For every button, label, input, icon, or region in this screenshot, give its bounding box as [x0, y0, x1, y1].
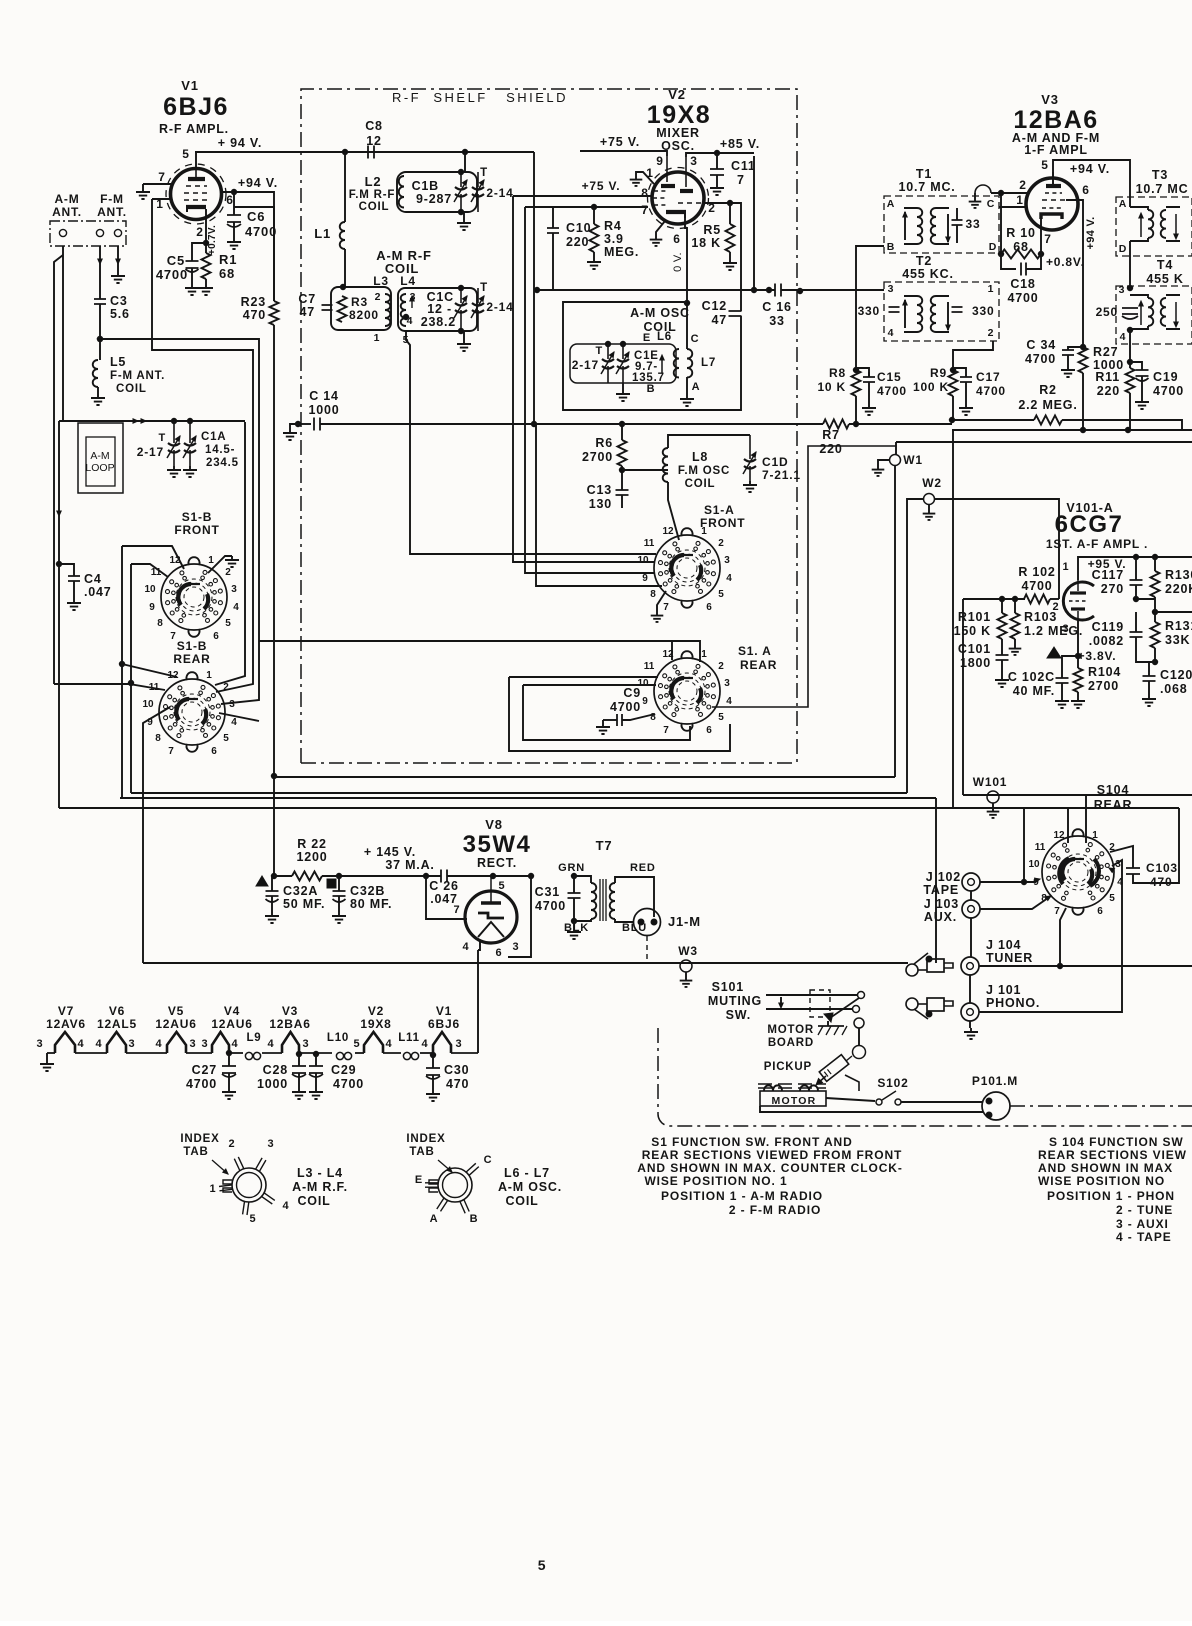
- svg-text:MOTOR: MOTOR: [772, 1095, 817, 1107]
- svg-text:2: 2: [225, 567, 231, 578]
- svg-text:4 - TAPE: 4 - TAPE: [1116, 1230, 1172, 1244]
- svg-text:B: B: [647, 383, 656, 395]
- svg-text:C12: C12: [702, 299, 727, 313]
- svg-text:L4: L4: [400, 274, 416, 288]
- svg-text:3: 3: [229, 699, 235, 710]
- svg-text:4: 4: [232, 1038, 239, 1050]
- svg-text:4700: 4700: [877, 384, 907, 398]
- svg-text:10: 10: [1028, 859, 1040, 870]
- svg-text:1000: 1000: [308, 403, 339, 417]
- svg-text:C103: C103: [1146, 861, 1178, 875]
- capacitor C120 .068: [1148, 662, 1150, 676]
- svg-text:C19: C19: [1153, 370, 1178, 384]
- svg-text:W101: W101: [973, 775, 1008, 789]
- svg-text:455 K: 455 K: [1146, 272, 1183, 286]
- svg-text:FRONT: FRONT: [174, 523, 219, 537]
- variable capacitor C1D 7-21.1: [749, 435, 751, 459]
- svg-text:W2: W2: [922, 476, 942, 490]
- node S1-B rear pin10 feed: [128, 680, 133, 685]
- svg-text:C1D: C1D: [762, 455, 788, 469]
- svg-text:7: 7: [454, 904, 461, 916]
- wire pickup to muting: [846, 1056, 852, 1061]
- svg-text:J1-M: J1-M: [668, 914, 701, 929]
- svg-text:L8: L8: [692, 450, 708, 464]
- svg-text:10: 10: [142, 699, 154, 710]
- svg-text:+94 V.: +94 V.: [1070, 162, 1110, 176]
- wire S1-A REAR pin12 top: [671, 640, 673, 660]
- trimmer cap T 2-17 (loop): [173, 421, 175, 443]
- wire T2 pin2 to R9: [953, 341, 993, 370]
- svg-text:2: 2: [196, 225, 203, 239]
- resistor R4 3.9 MEG: [593, 207, 595, 224]
- wire V8 pin4 heater feed: [478, 940, 480, 950]
- svg-text:E: E: [643, 332, 651, 344]
- svg-text:V3: V3: [1041, 92, 1059, 107]
- svg-text:C 16: C 16: [762, 300, 792, 314]
- svg-text:R23: R23: [241, 295, 266, 309]
- coil diagram L6-L7 pins: [466, 1163, 479, 1175]
- svg-text:+75 V.: +75 V.: [582, 179, 621, 193]
- svg-text:2: 2: [375, 291, 382, 303]
- svg-text:8: 8: [650, 589, 656, 600]
- svg-text:3: 3: [888, 283, 895, 295]
- svg-text:6: 6: [706, 602, 712, 613]
- svg-text:270: 270: [1101, 582, 1124, 596]
- svg-text:C 34: C 34: [1026, 338, 1056, 352]
- svg-text:4700: 4700: [610, 700, 641, 714]
- svg-text:PICKUP: PICKUP: [764, 1061, 812, 1073]
- svg-text:4: 4: [726, 696, 732, 707]
- svg-text:12AV6: 12AV6: [46, 1017, 86, 1031]
- jumper W1: [895, 442, 897, 455]
- svg-text:2-14: 2-14: [486, 300, 513, 314]
- svg-text:3: 3: [231, 584, 237, 595]
- svg-text:WISE POSITION NO: WISE POSITION NO: [1038, 1174, 1165, 1188]
- svg-text:+85 V.: +85 V.: [720, 137, 760, 151]
- svg-text:3: 3: [37, 1038, 44, 1050]
- transformer T7 secondary winding: [610, 883, 615, 919]
- audio section box: [962, 599, 964, 795]
- svg-text:8: 8: [155, 733, 161, 744]
- svg-text:35W4: 35W4: [463, 831, 532, 858]
- trimmer T 2-17 (osc): [607, 344, 609, 359]
- svg-text:+94 V.: +94 V.: [238, 176, 278, 190]
- A-M R-F coil left box: [331, 287, 391, 330]
- svg-text:220: 220: [819, 442, 842, 456]
- svg-text:C: C: [987, 198, 995, 210]
- ground at V1 pin7: [143, 183, 171, 185]
- wire L8 bottom to S1-A front: [668, 482, 679, 540]
- svg-text:7: 7: [1044, 232, 1051, 246]
- svg-text:3: 3: [202, 1038, 209, 1050]
- svg-text:3.9: 3.9: [604, 232, 624, 246]
- capacitor T2 330 right: [952, 307, 963, 312]
- svg-text:7: 7: [663, 725, 669, 736]
- switch S1-A REAR: [637, 649, 732, 736]
- capacitor C13 130: [616, 490, 629, 495]
- svg-text:4: 4: [422, 1038, 429, 1050]
- svg-text:C 14: C 14: [309, 389, 339, 403]
- node R6 top: [619, 421, 624, 426]
- svg-text:C 102C: C 102C: [1008, 670, 1055, 684]
- resistor R101 150K: [1001, 599, 1003, 613]
- svg-text:J 103: J 103: [924, 897, 959, 911]
- svg-text:S102: S102: [877, 1076, 908, 1090]
- svg-text:40 MF.: 40 MF.: [1013, 684, 1055, 698]
- svg-text:R-F AMPL.: R-F AMPL.: [159, 122, 229, 136]
- svg-text:R101: R101: [958, 610, 991, 624]
- A-M loop antenna: [78, 423, 123, 493]
- svg-text:C31: C31: [535, 885, 560, 899]
- svg-text:+0.7V.: +0.7V.: [207, 225, 218, 255]
- phono plug at phono jack: [906, 998, 918, 1010]
- svg-text:C: C: [691, 333, 700, 345]
- S104 wiper feeds: [1067, 808, 1069, 843]
- svg-text:4: 4: [231, 717, 237, 728]
- node R22 left: [271, 873, 276, 878]
- svg-text:L7: L7: [701, 357, 716, 369]
- svg-text:50 MF.: 50 MF.: [283, 897, 325, 911]
- svg-text:5: 5: [354, 1038, 361, 1050]
- resistor R104 2700: [1077, 656, 1079, 668]
- resistor R131 33K: [1154, 612, 1156, 622]
- wire T3 left column: [1129, 241, 1131, 286]
- capacitor C6 4700: [233, 192, 235, 215]
- svg-text:V5: V5: [168, 1004, 184, 1018]
- svg-text:6: 6: [226, 193, 233, 207]
- variable capacitor C1E 9.7-135.7: [622, 344, 624, 359]
- ground V2 cathode: [656, 221, 665, 236]
- svg-text:C30: C30: [444, 1063, 469, 1077]
- wire S104 pin7 to tuner: [1060, 908, 1066, 966]
- switch S1-B FRONT: [144, 555, 239, 642]
- svg-text:L6: L6: [657, 331, 672, 343]
- svg-text:INDEX: INDEX: [180, 1133, 219, 1145]
- svg-text:68: 68: [219, 266, 235, 281]
- svg-text:4700: 4700: [1025, 352, 1056, 366]
- svg-text:A: A: [430, 1213, 439, 1225]
- svg-text:T: T: [595, 345, 603, 357]
- node F-M coil tap: [97, 336, 102, 341]
- ground S1-A FRONT pin7: [657, 591, 666, 612]
- svg-text:TAB: TAB: [409, 1146, 434, 1158]
- node C16 left: [766, 287, 771, 292]
- svg-text:4700: 4700: [535, 899, 566, 913]
- svg-text:A-M OSC.: A-M OSC.: [498, 1180, 562, 1194]
- svg-text:47: 47: [711, 313, 727, 327]
- svg-text:MIXER: MIXER: [656, 126, 700, 140]
- ground F-M lead: [111, 272, 125, 283]
- svg-text:B: B: [887, 241, 895, 253]
- svg-text:J 102: J 102: [926, 870, 961, 884]
- transformer T2 box: [884, 282, 999, 341]
- ground J101: [964, 1028, 978, 1039]
- svg-text:ANT.: ANT.: [52, 205, 82, 219]
- heater chain filaments: [55, 1032, 75, 1053]
- svg-text:10: 10: [144, 584, 156, 595]
- svg-text:REAR: REAR: [740, 658, 777, 672]
- svg-text:4: 4: [463, 941, 470, 953]
- svg-text:1200: 1200: [296, 850, 327, 864]
- svg-text:4: 4: [283, 1200, 290, 1212]
- svg-text:47: 47: [299, 305, 315, 319]
- svg-text:12AU6: 12AU6: [211, 1017, 252, 1031]
- capacitor C29 4700: [313, 1051, 318, 1056]
- svg-text:S1-A: S1-A: [704, 503, 735, 517]
- wire B+ column R23 down to bus: [273, 325, 275, 876]
- svg-text:6: 6: [1082, 183, 1089, 197]
- capacitor C27 4700: [226, 1050, 231, 1055]
- svg-text:3: 3: [268, 1138, 275, 1150]
- svg-text:330: 330: [858, 304, 880, 318]
- phono plug at tuner jack: [906, 964, 918, 976]
- svg-text:F-M: F-M: [100, 192, 124, 206]
- svg-text:COIL: COIL: [505, 1194, 538, 1208]
- svg-text:2: 2: [223, 682, 229, 693]
- switch S104: [1028, 829, 1123, 917]
- svg-text:2-14: 2-14: [486, 186, 513, 200]
- svg-text:3: 3: [456, 1038, 463, 1050]
- filter node triangle marker: [256, 876, 268, 886]
- svg-text:9: 9: [656, 154, 663, 168]
- wire R131 bottom: [1154, 648, 1156, 662]
- svg-text:T2: T2: [916, 254, 932, 268]
- svg-text:L6 - L7: L6 - L7: [504, 1166, 550, 1180]
- svg-text:PHONO.: PHONO.: [986, 996, 1040, 1010]
- wire S1-B left columns: [130, 564, 132, 793]
- svg-text:D: D: [989, 241, 997, 253]
- svg-text:A-M OSC: A-M OSC: [630, 306, 690, 320]
- svg-text:L2: L2: [365, 174, 382, 189]
- svg-text:C5: C5: [167, 253, 185, 268]
- svg-text:SW.: SW.: [726, 1008, 751, 1022]
- svg-text:F-M ANT.: F-M ANT.: [110, 370, 165, 382]
- svg-text:POSITION 1 - PHON: POSITION 1 - PHON: [1047, 1189, 1175, 1203]
- coil L4: [401, 294, 406, 326]
- svg-text:C1A: C1A: [201, 431, 226, 443]
- svg-text:2: 2: [1019, 178, 1026, 192]
- svg-text:A: A: [887, 198, 895, 210]
- capacitor C16 33 (series): [775, 284, 781, 297]
- svg-text:6: 6: [673, 232, 680, 246]
- svg-text:12AL5: 12AL5: [97, 1017, 137, 1031]
- svg-text:C120: C120: [1160, 668, 1192, 682]
- coil L5 F-M ANT: [93, 360, 98, 387]
- wire F-M lead down to C3: [99, 264, 101, 299]
- S104 rotor arcs: [1059, 858, 1069, 884]
- tube V2 envelope: [652, 172, 704, 224]
- oscillator slug arrow: [661, 357, 663, 373]
- svg-text:V7: V7: [58, 1004, 74, 1018]
- node C11: [714, 150, 719, 155]
- coil diagram L3-L4 pins: [234, 1157, 244, 1171]
- svg-text:2: 2: [229, 1138, 236, 1150]
- svg-text:C7: C7: [298, 292, 316, 306]
- svg-text:C32A: C32A: [283, 884, 318, 898]
- svg-text:4: 4: [888, 327, 895, 339]
- svg-text:12AU6: 12AU6: [155, 1017, 196, 1031]
- capacitor C102C 40MF: [1047, 647, 1061, 658]
- wire J102 to S104 pin9: [980, 881, 1036, 883]
- ground C14: [283, 429, 297, 440]
- svg-text:6: 6: [1097, 906, 1103, 917]
- svg-text:19X8: 19X8: [360, 1017, 391, 1031]
- svg-text:COIL: COIL: [359, 201, 390, 213]
- svg-text:4: 4: [386, 1038, 393, 1050]
- tube V1 internals: [195, 169, 197, 178]
- wire tuner line: [979, 965, 1192, 967]
- svg-text:AND SHOWN IN MAX: AND SHOWN IN MAX: [1038, 1161, 1173, 1175]
- node L1 to box: [340, 284, 345, 289]
- svg-text:7: 7: [158, 170, 165, 184]
- R-F shelf shield boundary: [301, 89, 797, 763]
- wire V2 pin2 to R5: [702, 203, 741, 311]
- svg-text:3: 3: [190, 1038, 197, 1050]
- capacitor C101 1800: [1001, 639, 1003, 655]
- wire T7 secondary to J1-M: [615, 877, 654, 917]
- muting switch blade: [830, 998, 859, 1018]
- svg-text:POSITION 1 - A-M RADIO: POSITION 1 - A-M RADIO: [661, 1189, 823, 1203]
- node C16 right: [797, 288, 802, 293]
- tube V101-A internals: [1070, 591, 1086, 594]
- svg-text:+ 145 V.: + 145 V.: [364, 845, 416, 859]
- resistor R5 18K: [729, 203, 731, 224]
- oscillator coil box: [570, 344, 676, 383]
- svg-text:10 K: 10 K: [817, 380, 846, 394]
- svg-text:C119: C119: [1092, 620, 1124, 634]
- tube V8 envelope: [465, 891, 517, 943]
- svg-text:37 M.A.: 37 M.A.: [385, 858, 434, 872]
- F-M antenna leads with arrows: [99, 246, 101, 264]
- svg-text:2-17: 2-17: [572, 358, 599, 372]
- svg-text:R1: R1: [219, 252, 237, 267]
- svg-text:250: 250: [1096, 305, 1118, 319]
- svg-text:R6: R6: [595, 436, 613, 450]
- svg-text:4700: 4700: [156, 267, 188, 282]
- wire C26 bypass to pin7: [426, 876, 467, 919]
- svg-text:T3: T3: [1152, 168, 1168, 182]
- node R5 top: [727, 200, 732, 205]
- wire V1 pin6 +94V to R23: [221, 192, 274, 301]
- svg-text:4: 4: [1120, 331, 1127, 343]
- capacitor C28 1000: [296, 1051, 301, 1056]
- svg-text:COIL: COIL: [297, 1194, 330, 1208]
- ground V2 pin1: [636, 172, 654, 184]
- svg-text:MUTING: MUTING: [708, 994, 762, 1008]
- connector J1-M: [634, 909, 661, 936]
- svg-text:4700: 4700: [333, 1077, 364, 1091]
- svg-text:5: 5: [250, 1213, 257, 1225]
- svg-text:1ST. A-F AMPL .: 1ST. A-F AMPL .: [1046, 537, 1148, 551]
- wire B- line W3: [143, 962, 908, 964]
- capacitor C30 470: [430, 1052, 435, 1057]
- svg-text:+75 V.: +75 V.: [600, 135, 640, 149]
- resistor R3 8200: [338, 296, 347, 322]
- svg-text:C11: C11: [731, 159, 756, 173]
- svg-text:150 K: 150 K: [954, 624, 991, 638]
- wire S1-B rear right columns: [215, 422, 245, 685]
- svg-text:1: 1: [988, 283, 995, 295]
- wire jack chain: [970, 891, 971, 1028]
- svg-text:C15: C15: [877, 370, 901, 384]
- svg-text:7-21.1: 7-21.1: [762, 468, 801, 482]
- svg-text:7: 7: [168, 746, 174, 757]
- svg-text:5: 5: [182, 147, 189, 161]
- wire bus dash-dot shield bottom: [301, 762, 797, 764]
- svg-text:REAR: REAR: [173, 652, 210, 666]
- transformer T1 box: [884, 196, 999, 253]
- svg-text:1-F AMPL: 1-F AMPL: [1024, 143, 1088, 157]
- svg-text:130: 130: [589, 497, 612, 511]
- svg-text:2700: 2700: [1088, 679, 1119, 693]
- svg-text:D: D: [1119, 243, 1127, 255]
- coil L7: [687, 349, 692, 378]
- svg-text:1: 1: [206, 670, 212, 681]
- node C1A: [187, 418, 192, 423]
- node C1C bottom: [458, 328, 463, 333]
- svg-text:14.5-: 14.5-: [205, 444, 235, 456]
- svg-text:L9: L9: [246, 1032, 261, 1044]
- svg-text:2: 2: [718, 538, 724, 549]
- svg-text:.047: .047: [84, 585, 112, 599]
- svg-text:1: 1: [1016, 193, 1023, 207]
- coil L2 box (F-M R-F COIL): [397, 172, 477, 212]
- svg-text:1000: 1000: [257, 1077, 288, 1091]
- capacitor C5 4700: [192, 243, 206, 261]
- svg-text:T4: T4: [1157, 258, 1173, 272]
- svg-text:R-F SHELF SHIELD: R-F SHELF SHIELD: [392, 90, 568, 105]
- svg-text:12BA6: 12BA6: [269, 1017, 310, 1031]
- capacitor C32A 50MF: [271, 876, 273, 891]
- transformer T7 core: [599, 879, 601, 921]
- svg-text:V4: V4: [224, 1004, 240, 1018]
- svg-text:4700: 4700: [186, 1077, 217, 1091]
- trimmer T 2-14 (C1C): [472, 303, 484, 306]
- svg-text:7: 7: [737, 173, 745, 187]
- svg-text:100 K: 100 K: [913, 380, 949, 394]
- resistor R11 220: [1126, 368, 1135, 393]
- transformer T7 primary winding: [574, 876, 591, 883]
- svg-text:S104: S104: [1097, 783, 1129, 797]
- svg-text:A-M: A-M: [54, 192, 79, 206]
- svg-text:R130: R130: [1165, 568, 1192, 582]
- svg-text:V6: V6: [109, 1004, 125, 1018]
- S104 box vertical to J102: [1023, 808, 1025, 880]
- capacitor C18 4700: [1001, 254, 1016, 269]
- svg-text:33: 33: [966, 217, 981, 231]
- svg-text:11: 11: [644, 538, 655, 549]
- node C4: [56, 561, 61, 566]
- wire V3 pin1 to T1 secondary: [999, 206, 1027, 208]
- wire L2 to rail: [464, 152, 466, 172]
- svg-text:L3: L3: [373, 274, 389, 288]
- svg-text:18 K: 18 K: [691, 236, 721, 250]
- vertical feed right of shield: [952, 430, 954, 808]
- svg-text:2: 2: [988, 327, 995, 339]
- svg-text:+ 94 V.: + 94 V.: [218, 136, 262, 150]
- node C8 left: [342, 149, 347, 154]
- svg-text:COIL: COIL: [116, 383, 147, 395]
- wire V1 plate to +94V rail: [196, 152, 534, 168]
- coil diagram L3-L4 index tab: [223, 1180, 232, 1192]
- svg-text:BLK: BLK: [564, 922, 589, 934]
- svg-text:9: 9: [149, 602, 155, 613]
- svg-text:4: 4: [156, 1038, 163, 1050]
- tube V2 internals: [661, 184, 675, 188]
- wires S1-A REAR left and bottom: [509, 677, 730, 751]
- node R7 right: [853, 421, 858, 426]
- svg-text:S1-B: S1-B: [177, 639, 208, 653]
